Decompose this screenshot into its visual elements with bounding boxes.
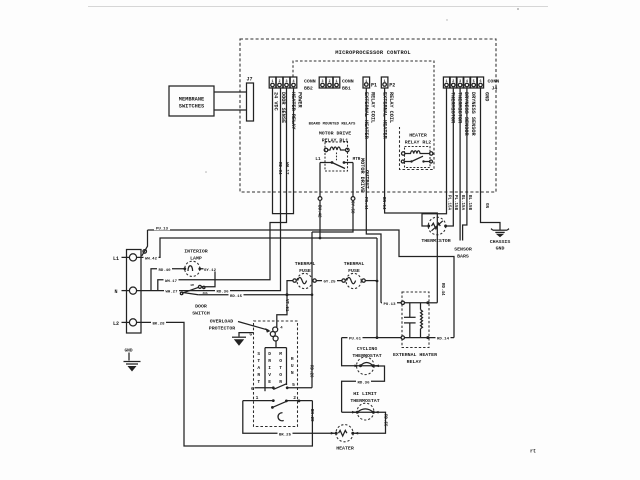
external heater relay coil element [421, 303, 423, 338]
svg-text:BU.42: BU.42 [317, 205, 321, 218]
svg-text:BK.28: BK.28 [152, 323, 165, 327]
svg-text:EXTERNAL HEATER: EXTERNAL HEATER [393, 352, 437, 358]
svg-text:CONN: CONN [342, 79, 354, 85]
svg-text:BOARD MOUNTED RELAYS: BOARD MOUNTED RELAYS [309, 123, 356, 127]
wire motor feed riser RD.20 [311, 232, 313, 388]
svg-text:L2: L2 [113, 321, 119, 327]
motor start winding wire [264, 348, 266, 392]
label WH.42 [144, 255, 159, 262]
svg-text:WH.17: WH.17 [165, 280, 178, 284]
svg-text:WH.42: WH.42 [145, 258, 158, 262]
svg-text:WH.27: WH.27 [165, 291, 178, 295]
svg-text:RD.14: RD.14 [437, 338, 450, 342]
svg-text:BK.28: BK.28 [309, 409, 313, 422]
terminal N [129, 287, 136, 294]
wire heater to hi limit thermostat [353, 412, 386, 433]
svg-text:24 VDC: 24 VDC [273, 92, 279, 111]
svg-text:1: 1 [365, 80, 367, 84]
microprocessor control outer dashed box [240, 39, 496, 192]
svg-text:BB1: BB1 [342, 86, 351, 92]
wire lamp to door switch GY.12 [200, 269, 215, 287]
svg-text:CONN: CONN [304, 79, 316, 85]
svg-text:PL.15A: PL.15A [446, 195, 450, 211]
wire J4 pin3 sensor bar [459, 89, 461, 241]
motor contact 1-2 row [243, 395, 313, 409]
wire N row to door switch and door sense [137, 89, 281, 291]
external heater relay capacitor element [404, 303, 416, 338]
svg-text:BARS: BARS [457, 254, 469, 260]
svg-text:RD.44: RD.44 [440, 283, 444, 296]
svg-text:GY.58: GY.58 [350, 201, 354, 214]
motor ground G [232, 333, 254, 346]
external heater relay contact row [401, 336, 454, 339]
svg-text:RD.15: RD.15 [230, 295, 243, 299]
wire RL1 L1-contact drop [319, 163, 321, 197]
overload pointer arrow [238, 322, 269, 331]
svg-text:SWITCHES: SWITCHES [179, 104, 205, 110]
svg-text:HI LIMIT: HI LIMIT [353, 391, 377, 397]
wire RL1 MTR-contact drop GY.58 [352, 163, 354, 197]
label BK.25 [278, 431, 293, 438]
external heater relay box [402, 292, 429, 348]
motor internal curl [278, 413, 284, 421]
svg-text:RD.55: RD.55 [383, 414, 387, 427]
svg-text:RD.20: RD.20 [308, 365, 312, 378]
cycling thermostat [353, 357, 379, 375]
svg-text:PU.13: PU.13 [156, 228, 169, 232]
svg-text:GY.12: GY.12 [204, 269, 217, 273]
label RD.40 [157, 266, 172, 273]
label PU.13 [154, 225, 170, 232]
svg-text:THERMISTOR: THERMISTOR [421, 238, 450, 244]
svg-text:RELAY RL1: RELAY RL1 [322, 138, 348, 144]
svg-text:DRYNESS SENSOR: DRYNESS SENSOR [463, 92, 469, 136]
svg-text:HEATER: HEATER [409, 133, 427, 139]
svg-text:J7: J7 [246, 77, 252, 83]
wire J4 pin4 sensor bar [463, 89, 467, 241]
wire lamp feed from N row [151, 269, 184, 291]
terminal block [127, 250, 142, 334]
external heater relay coil row [381, 301, 437, 304]
scan speck 3 [205, 171, 207, 173]
svg-text:CONN: CONN [488, 79, 500, 85]
relay RL2 [401, 147, 433, 168]
label GY.12 [204, 266, 217, 273]
label GY.25 [322, 278, 337, 285]
thermistor [427, 217, 447, 235]
label RD.36 row [356, 379, 371, 386]
svg-text:BB2: BB2 [304, 86, 313, 92]
svg-text:LAMP: LAMP [190, 256, 202, 262]
svg-text:1: 1 [384, 80, 386, 84]
svg-text:RUN: RUN [291, 356, 294, 376]
svg-text:GND: GND [484, 92, 490, 101]
wire membrane to J7 upper [214, 91, 247, 93]
connector CONN BB1 [319, 77, 354, 92]
wire VT.51 to overload protector [277, 295, 287, 327]
svg-text:DRIVE: DRIVE [268, 351, 271, 385]
svg-text:L1: L1 [113, 256, 119, 262]
svg-text:THERMOSTAT: THERMOSTAT [350, 398, 379, 404]
wire P1 to external heater relay top [366, 89, 381, 303]
svg-text:GN: GN [484, 203, 488, 209]
svg-text:PU.13: PU.13 [383, 303, 396, 307]
svg-text:PL.15B: PL.15B [453, 195, 457, 211]
svg-text:VT.51: VT.51 [284, 299, 288, 312]
wire GY.25 between fuses [316, 280, 342, 282]
label RD.14 [436, 335, 451, 342]
label BK.28 horizontal [151, 320, 166, 327]
wire J4 pin6 to chassis ground [481, 89, 501, 231]
svg-text:DRYNESS SENSOR: DRYNESS SENSOR [470, 92, 476, 136]
interior lamp [183, 261, 201, 276]
svg-text:DOOR: DOOR [195, 304, 207, 310]
wire RD.15 row from door switch to motor feed [198, 294, 312, 296]
svg-text:SENSOR: SENSOR [454, 247, 472, 253]
wire row A PU.13 from L1 to heater relay right [142, 230, 454, 338]
scan speck 1 [517, 8, 519, 10]
hi limit thermostat [352, 403, 379, 420]
wire thermal fuse 2 to drop [365, 280, 377, 282]
wire BB2 pin1 pin4 loop [273, 89, 294, 214]
svg-text:FUSE: FUSE [348, 268, 360, 274]
terminal L1 [129, 254, 136, 261]
svg-text:INTERIOR: INTERIOR [184, 249, 208, 255]
pin P1 [363, 77, 377, 89]
wire motor contact 1 to heater BK.25 [243, 401, 336, 434]
wire WH.17 row from N to BB2 pin3 [158, 89, 287, 291]
thermal fuse 1 [293, 273, 316, 288]
svg-text:J4: J4 [492, 86, 498, 92]
svg-text:BK.25: BK.25 [279, 433, 292, 437]
svg-text:MOTOR: MOTOR [279, 351, 282, 385]
svg-text:HEATER: HEATER [336, 446, 354, 452]
svg-text:1: 1 [256, 395, 259, 401]
svg-text:BN.14: BN.14 [381, 197, 385, 210]
terminal L2 [129, 319, 136, 326]
wire L2 to motor contact 2 [137, 322, 313, 446]
inner dashed board-relays boundary [293, 61, 434, 170]
thermal fuse 2 [342, 273, 365, 288]
svg-text:RELAY COIL: RELAY COIL [388, 92, 394, 123]
svg-text:THERMAL: THERMAL [344, 261, 365, 267]
chassis ground symbol [491, 229, 509, 238]
scan artifact top rule [88, 6, 548, 8]
svg-text:RD.34: RD.34 [277, 162, 281, 175]
svg-text:BL.15A: BL.15A [460, 195, 464, 211]
svg-text:SWITCH: SWITCH [192, 311, 210, 317]
svg-text:P1: P1 [371, 83, 377, 89]
wire membrane to J7 lower [214, 109, 247, 111]
label RD.36 [215, 288, 230, 295]
connector CONN BB2 [269, 77, 316, 92]
svg-text:RELAY RL2: RELAY RL2 [405, 140, 431, 146]
relay RL1 [315, 142, 360, 171]
svg-text:THERMISTOR: THERMISTOR [456, 92, 462, 124]
wire drop to thermal fuse 2 and relay contact row [376, 238, 378, 338]
svg-text:FUSE: FUSE [299, 268, 311, 274]
label PU.61 [348, 335, 363, 342]
scan speck 2 [446, 19, 447, 20]
svg-text:6: 6 [251, 386, 254, 392]
label WH.17 horizontal [164, 277, 179, 284]
svg-text:START: START [257, 351, 260, 385]
label WH.27 [164, 288, 179, 295]
svg-text:POWER: POWER [296, 92, 302, 108]
membrane switches box [169, 86, 214, 116]
svg-text:RELAY: RELAY [407, 359, 422, 365]
svg-text:BL.15B: BL.15B [467, 195, 471, 211]
svg-text:THERMISTOR: THERMISTOR [450, 92, 456, 124]
wire row B WH.42 from L1 [142, 238, 378, 257]
svg-text:THERMOSTAT: THERMOSTAT [352, 353, 381, 359]
motor run winding wire [286, 348, 288, 385]
connector CONN J4 [443, 77, 499, 92]
svg-text:PROTECTOR: PROTECTOR [209, 326, 235, 332]
overload protector element [270, 327, 278, 348]
svg-text:PU.61: PU.61 [349, 338, 362, 342]
svg-text:P2: P2 [389, 83, 395, 89]
svg-text:MEMBRANE: MEMBRANE [179, 97, 204, 103]
svg-text:rt: rt [530, 449, 536, 455]
svg-text:GY.25: GY.25 [323, 281, 336, 285]
svg-text:RD.40: RD.40 [158, 269, 171, 273]
wire thermal fuse 1 branch [287, 281, 293, 295]
label PU.13 relay top [382, 300, 397, 307]
motor contact 6-5 row [251, 382, 312, 392]
connector J7 [247, 83, 254, 121]
svg-text:WH.17: WH.17 [284, 162, 288, 175]
motor dashed box [254, 321, 298, 427]
wire cycling thermostat feed from relay contact row [342, 338, 353, 366]
label RD.15 [229, 292, 244, 299]
svg-text:MOTOR DRIVE: MOTOR DRIVE [319, 131, 351, 137]
wire P2 to external heater relay top [385, 89, 438, 303]
ground symbol near terminal block [124, 348, 141, 372]
svg-text:CYCLING: CYCLING [357, 346, 378, 352]
wire J4 pin1 to thermistor [422, 89, 447, 227]
svg-text:PR.44: PR.44 [363, 197, 367, 210]
svg-text:CHASSIS: CHASSIS [490, 239, 511, 245]
svg-text:RELAY COIL: RELAY COIL [370, 92, 376, 123]
heater [331, 425, 358, 442]
door switch [180, 284, 208, 295]
motor winding bus [265, 347, 287, 349]
wire hi limit to cycling thermostat RD.36 [342, 366, 385, 412]
svg-text:OVERLOAD: OVERLOAD [210, 319, 234, 325]
svg-text:MICROPROCESSOR CONTROL: MICROPROCESSOR CONTROL [335, 50, 411, 56]
svg-text:N: N [114, 289, 117, 295]
wire relay contact row left [342, 337, 401, 339]
wire J4 pin2 to thermistor [447, 89, 454, 227]
svg-text:3M: 3M [190, 284, 194, 287]
pin P2 [381, 77, 395, 89]
svg-text:GND: GND [496, 246, 505, 252]
svg-text:RD.36: RD.36 [357, 381, 370, 385]
svg-text:L1: L1 [315, 157, 321, 162]
